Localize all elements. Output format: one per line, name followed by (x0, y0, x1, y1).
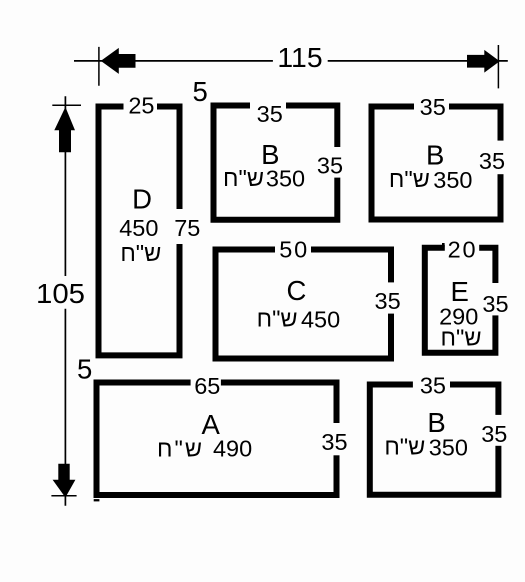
room A outline (97, 383, 337, 496)
svg-text:35: 35 (420, 94, 446, 120)
room B (top right) outline (372, 107, 501, 220)
room B (top middle) outline (214, 106, 338, 220)
small tick under A bottom-left corner (94, 499, 100, 501)
svg-text:ש"ח: ש"ח (441, 325, 482, 351)
svg-text:350: 350 (266, 166, 305, 192)
svg-text:E: E (451, 276, 469, 307)
svg-text:5: 5 (192, 76, 207, 107)
room E outline (425, 248, 496, 353)
room B (bottom right) outline (370, 385, 499, 495)
svg-text:ש"ח: ש"ח (157, 435, 202, 461)
small tick on E top border left of 20 (442, 243, 445, 247)
svg-text:25: 25 (128, 93, 154, 119)
svg-text:35: 35 (482, 291, 508, 317)
svg-text:ש"ח: ש"ח (257, 306, 298, 332)
svg-text:35: 35 (317, 153, 343, 179)
svg-text:450: 450 (119, 215, 158, 241)
room D outline (99, 107, 180, 356)
svg-text:350: 350 (433, 167, 472, 193)
svg-text:B: B (427, 407, 445, 438)
svg-text:20: 20 (448, 236, 476, 262)
svg-text:ש"ח: ש"ח (223, 165, 264, 191)
svg-text:115: 115 (277, 42, 322, 73)
svg-text:ש"ח: ש"ח (389, 166, 430, 192)
svg-text:105: 105 (36, 278, 85, 309)
svg-text:5: 5 (77, 353, 92, 384)
svg-text:D: D (132, 184, 152, 215)
svg-text:ש"ח: ש"ח (120, 240, 161, 266)
room C outline (216, 250, 392, 359)
svg-text:35: 35 (481, 421, 507, 447)
svg-text:35: 35 (420, 372, 446, 398)
svg-text:75: 75 (174, 215, 200, 241)
svg-text:450: 450 (301, 307, 340, 333)
svg-text:35: 35 (257, 101, 283, 127)
svg-text:350: 350 (429, 435, 468, 461)
svg-text:490: 490 (213, 436, 252, 462)
dimension line 115 (top) (74, 45, 508, 88)
svg-text:35: 35 (321, 429, 347, 455)
svg-text:35: 35 (479, 148, 505, 174)
svg-text:50: 50 (279, 236, 307, 262)
svg-text:65: 65 (194, 373, 220, 399)
svg-text:35: 35 (375, 288, 401, 314)
svg-text:C: C (286, 275, 306, 306)
svg-text:ש"ח: ש"ח (384, 434, 425, 460)
dimension line 105 (left) (51, 96, 81, 505)
